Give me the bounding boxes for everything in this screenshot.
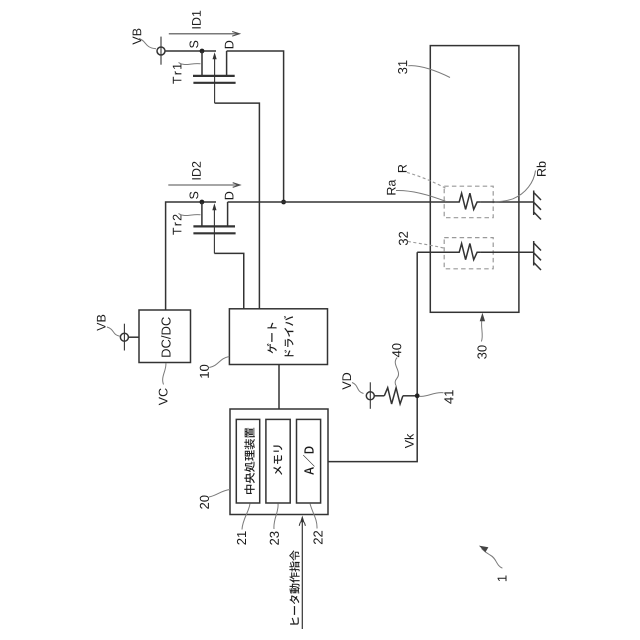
block gate driver U10 [229, 309, 327, 365]
leader 40 [395, 358, 398, 386]
arrow ID2 [168, 183, 240, 188]
label heater command [289, 550, 299, 624]
node S Tr2 [200, 200, 205, 205]
leader 31 [408, 66, 450, 78]
transistor Tr1 [193, 51, 236, 103]
block 21 CPU [236, 419, 259, 503]
label ID2 [192, 162, 201, 180]
label DC/DC [161, 317, 171, 357]
label 41 [444, 390, 453, 404]
transistor Tr2 [193, 202, 235, 253]
label 40 [392, 344, 401, 358]
label Tr2 [173, 215, 182, 235]
leader arrow 30 [480, 313, 485, 342]
block 31 (heater plate) [430, 46, 519, 313]
label S (Tr2) [190, 192, 199, 199]
label D (Tr2) [225, 192, 234, 199]
label 22 [313, 531, 322, 544]
terminal VB (DC/DC) [120, 324, 128, 351]
leader 23 [274, 504, 278, 530]
ground (32 side) [534, 241, 541, 270]
wire Tr2 gate to gate driver [214, 253, 243, 308]
terminal VD [366, 382, 374, 409]
node S Tr1 [200, 49, 205, 54]
leader 10 [209, 357, 229, 368]
leader Tr2 [179, 214, 201, 216]
label VB (DC/DC) [97, 315, 106, 331]
block DC/DC [139, 310, 191, 363]
label Rb [537, 162, 546, 177]
wire resistor 32 branch [417, 251, 452, 253]
label Ra [387, 180, 396, 195]
resistor R (Ra) [453, 193, 534, 209]
leader VC [163, 363, 166, 385]
leader VD [352, 383, 364, 394]
wire Tr1 gate to gate driver [215, 103, 260, 309]
dashed box R [444, 186, 493, 218]
label 32 [399, 232, 408, 245]
leader 41 [420, 393, 444, 397]
wire main (Tr2 drain to resistor R) [228, 201, 453, 203]
label R [398, 165, 407, 172]
leader 21 [242, 504, 250, 530]
junction node Tr1 drain / main wire [281, 200, 286, 205]
leader 20 [209, 490, 230, 498]
block 22 A/D [297, 419, 321, 503]
wire VB to S node [165, 50, 216, 52]
label Tr1 [173, 64, 182, 84]
label CPU text [244, 428, 255, 494]
node 41 [415, 393, 420, 398]
label D (Tr1) [225, 41, 234, 48]
wire gate driver to CPU block [278, 365, 280, 410]
label 1 [498, 576, 507, 582]
terminal VB (top) [157, 37, 165, 65]
label ID1 [192, 11, 201, 29]
leader VB (top) [139, 39, 156, 49]
leader R (dashed) [407, 173, 446, 189]
label VD [342, 373, 351, 390]
wire Vk (A/D input) [328, 252, 417, 461]
arrow heater command input [299, 516, 305, 630]
leader Tr1 [179, 63, 201, 65]
label 10 [200, 365, 209, 378]
leader Rb [495, 171, 536, 202]
leader arrow 1 [479, 546, 503, 569]
label 31 [398, 61, 407, 74]
leader VB (DC/DC) [107, 327, 120, 336]
label 20 [200, 496, 209, 509]
block 23 memory [266, 419, 290, 503]
label gate driver line1 [267, 323, 277, 354]
resistor 32 [453, 244, 534, 260]
block 20 (controller) [230, 409, 328, 515]
label A/D text [303, 447, 315, 475]
label 23 [270, 532, 279, 545]
leader Ra [396, 190, 446, 201]
label gate driver line2 [284, 316, 294, 356]
ground (Rb side) [534, 191, 541, 220]
label 21 [237, 531, 246, 544]
label memory text [273, 445, 282, 475]
dashed box 32 [444, 238, 493, 269]
arrow ID1 [169, 32, 240, 37]
label VC [159, 388, 168, 405]
resistor 40 [374, 388, 417, 404]
leader 22 [310, 504, 317, 529]
wire Tr2 source to DC/DC [166, 202, 216, 310]
leader 32 (dashed) [408, 242, 446, 249]
label 30 [477, 345, 486, 358]
wire VB to DC/DC [128, 336, 139, 338]
label VB (top) [133, 29, 142, 45]
label S (Tr1) [190, 41, 199, 48]
wire Tr1 drain [227, 51, 284, 202]
label Vk [405, 434, 414, 449]
